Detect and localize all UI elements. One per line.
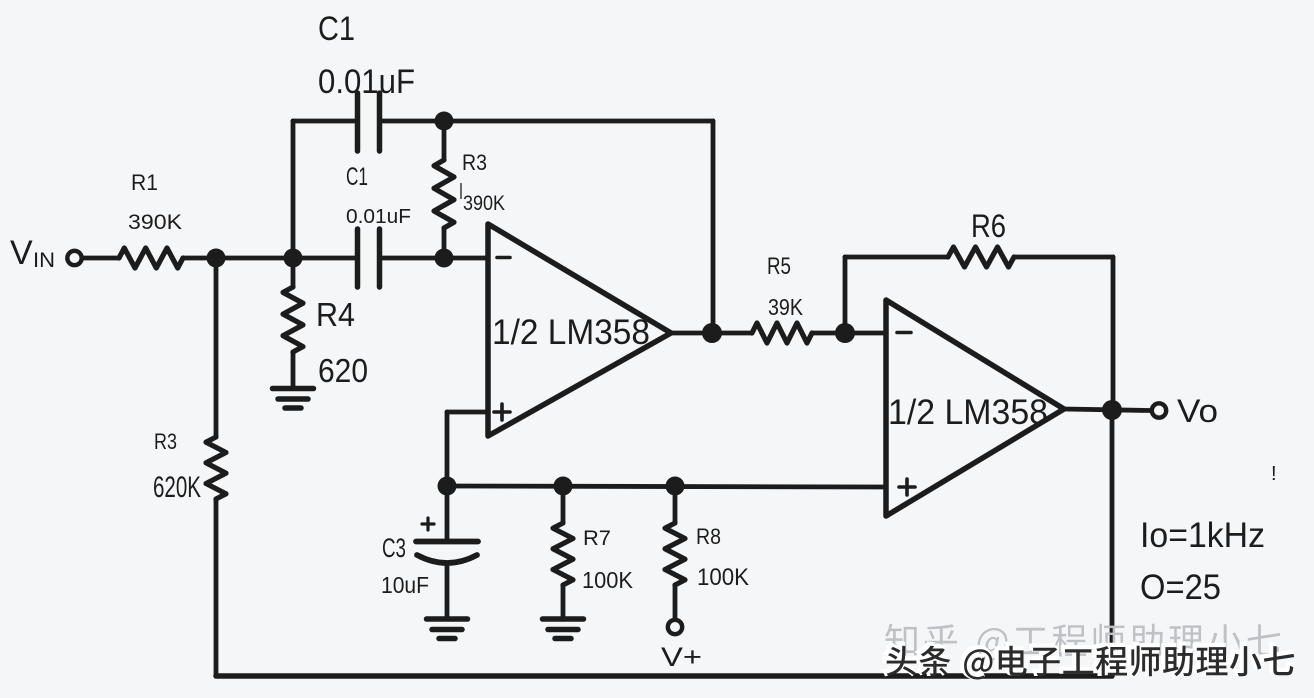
op-amp U1 1/2 LM358 — [488, 224, 671, 436]
svg-text:C1: C1 — [346, 163, 368, 191]
svg-text:R5: R5 — [767, 253, 791, 280]
ground below R4 — [273, 386, 314, 392]
resistor R7 100K — [561, 486, 566, 523]
resistor R4 620 — [291, 258, 296, 287]
node H junction C3 — [438, 477, 457, 496]
resistor R6 — [948, 247, 1014, 267]
svg-text:R4: R4 — [316, 296, 355, 333]
U2 minus sign — [897, 331, 911, 335]
svg-text:39K: 39K — [768, 294, 804, 320]
svg-text:R3: R3 — [462, 150, 487, 175]
node E junction U1 output — [702, 323, 722, 343]
svg-text:1/2 LM358: 1/2 LM358 — [888, 393, 1048, 432]
C3 top plate — [416, 539, 478, 545]
watermark toutiao dark — [884, 643, 1292, 677]
svg-text:Vo: Vo — [1177, 393, 1218, 429]
U2 plus sign — [899, 485, 915, 489]
svg-text:Io=1kHz: Io=1kHz — [1140, 516, 1265, 555]
svg-text:1/2 LM358: 1/2 LM358 — [492, 313, 650, 352]
svg-text:V: V — [10, 234, 33, 272]
C3 plus mark — [422, 522, 434, 525]
svg-text:C3: C3 — [382, 533, 406, 563]
wire R6 left segment — [845, 255, 948, 260]
wire U1 + input left — [447, 410, 488, 415]
svg-text:R8: R8 — [696, 524, 721, 549]
resistor R3 390K (feedback) — [442, 121, 447, 160]
wire R5 to node F — [812, 331, 845, 336]
wire left rail down — [214, 258, 219, 437]
svg-text:V+: V+ — [661, 642, 702, 672]
svg-text:R1: R1 — [131, 170, 158, 195]
resistor R5 39K — [752, 323, 812, 343]
svg-text:10uF: 10uF — [381, 572, 429, 598]
node J junction R8 — [666, 477, 685, 496]
node C junction — [435, 249, 454, 268]
ground below C3 — [427, 616, 468, 622]
wire node F up to R6 rail — [843, 257, 848, 333]
wire U1 + input down — [445, 412, 450, 486]
watermark zhihu light — [885, 624, 1280, 661]
wire node F to U2 inverting input — [845, 331, 886, 336]
node F junction — [835, 323, 855, 343]
wire R1 to node A — [183, 256, 216, 261]
wire U1 output to R5 — [671, 331, 752, 336]
terminal Vo — [1152, 403, 1166, 417]
resistor R3 620K (left) — [206, 437, 226, 499]
node I junction R7 — [554, 477, 573, 496]
svg-text:!: ! — [1271, 463, 1277, 485]
svg-text:390K: 390K — [463, 192, 505, 215]
wire node B up to feedback rail — [291, 121, 296, 258]
svg-text:R7: R7 — [583, 527, 611, 550]
wire feedback cap to node D — [382, 119, 444, 124]
wire node B to input cap — [293, 256, 355, 261]
node B junction — [284, 249, 303, 268]
terminal VIN — [67, 251, 81, 265]
capacitor C1 (series input) 0.01uF — [355, 229, 361, 287]
wire R6 drop to output node — [1111, 257, 1116, 410]
node D junction — [435, 112, 454, 131]
wire node C to U1 inverting input — [444, 256, 488, 261]
wire feedback rail drop to U1 output — [711, 121, 716, 333]
svg-text:620: 620 — [318, 352, 368, 389]
wire bias rail — [447, 486, 886, 487]
wire R6 right segment — [1014, 255, 1113, 260]
wire right rail down — [1110, 410, 1115, 676]
wire U2 output to Vo — [1064, 409, 1150, 411]
capacitor C3 10uF top wire — [445, 486, 450, 539]
wire VIN to R1 — [84, 256, 119, 261]
wire feedback rail left segment — [293, 119, 355, 124]
svg-text:0.01uF: 0.01uF — [346, 206, 411, 228]
wire feedback rail top segment — [444, 119, 713, 124]
U1 minus sign — [497, 256, 510, 260]
svg-text:C1: C1 — [318, 10, 355, 48]
svg-text:100K: 100K — [697, 564, 749, 591]
op-amp U2 1/2 LM358 — [886, 300, 1064, 516]
stray mark artifact near R3 value — [460, 183, 462, 199]
ground below R7 — [543, 616, 584, 622]
svg-text:390K: 390K — [128, 211, 182, 234]
svg-text:620K: 620K — [153, 471, 201, 504]
node G junction U2 output — [1102, 400, 1122, 420]
U1 plus sign — [494, 410, 510, 414]
terminal V+ — [668, 620, 682, 634]
wire bottom rail — [216, 673, 1112, 679]
C3 curved plate — [417, 555, 477, 563]
svg-text:O=25: O=25 — [1140, 568, 1221, 607]
resistor R8 100K — [673, 486, 678, 523]
wire input cap to node C — [382, 256, 444, 261]
capacitor C1 (feedback) 0.01uF — [355, 93, 361, 151]
node A junction — [207, 249, 226, 268]
svg-text:0.01uF: 0.01uF — [318, 63, 415, 101]
resistor R1 390K — [119, 248, 183, 268]
wire node A to node B — [216, 256, 293, 261]
svg-text:R3: R3 — [154, 429, 177, 454]
svg-text:100K: 100K — [582, 567, 634, 593]
svg-text:IN: IN — [33, 249, 55, 272]
C3 bottom wire — [445, 566, 450, 617]
svg-text:R6: R6 — [971, 208, 1006, 244]
